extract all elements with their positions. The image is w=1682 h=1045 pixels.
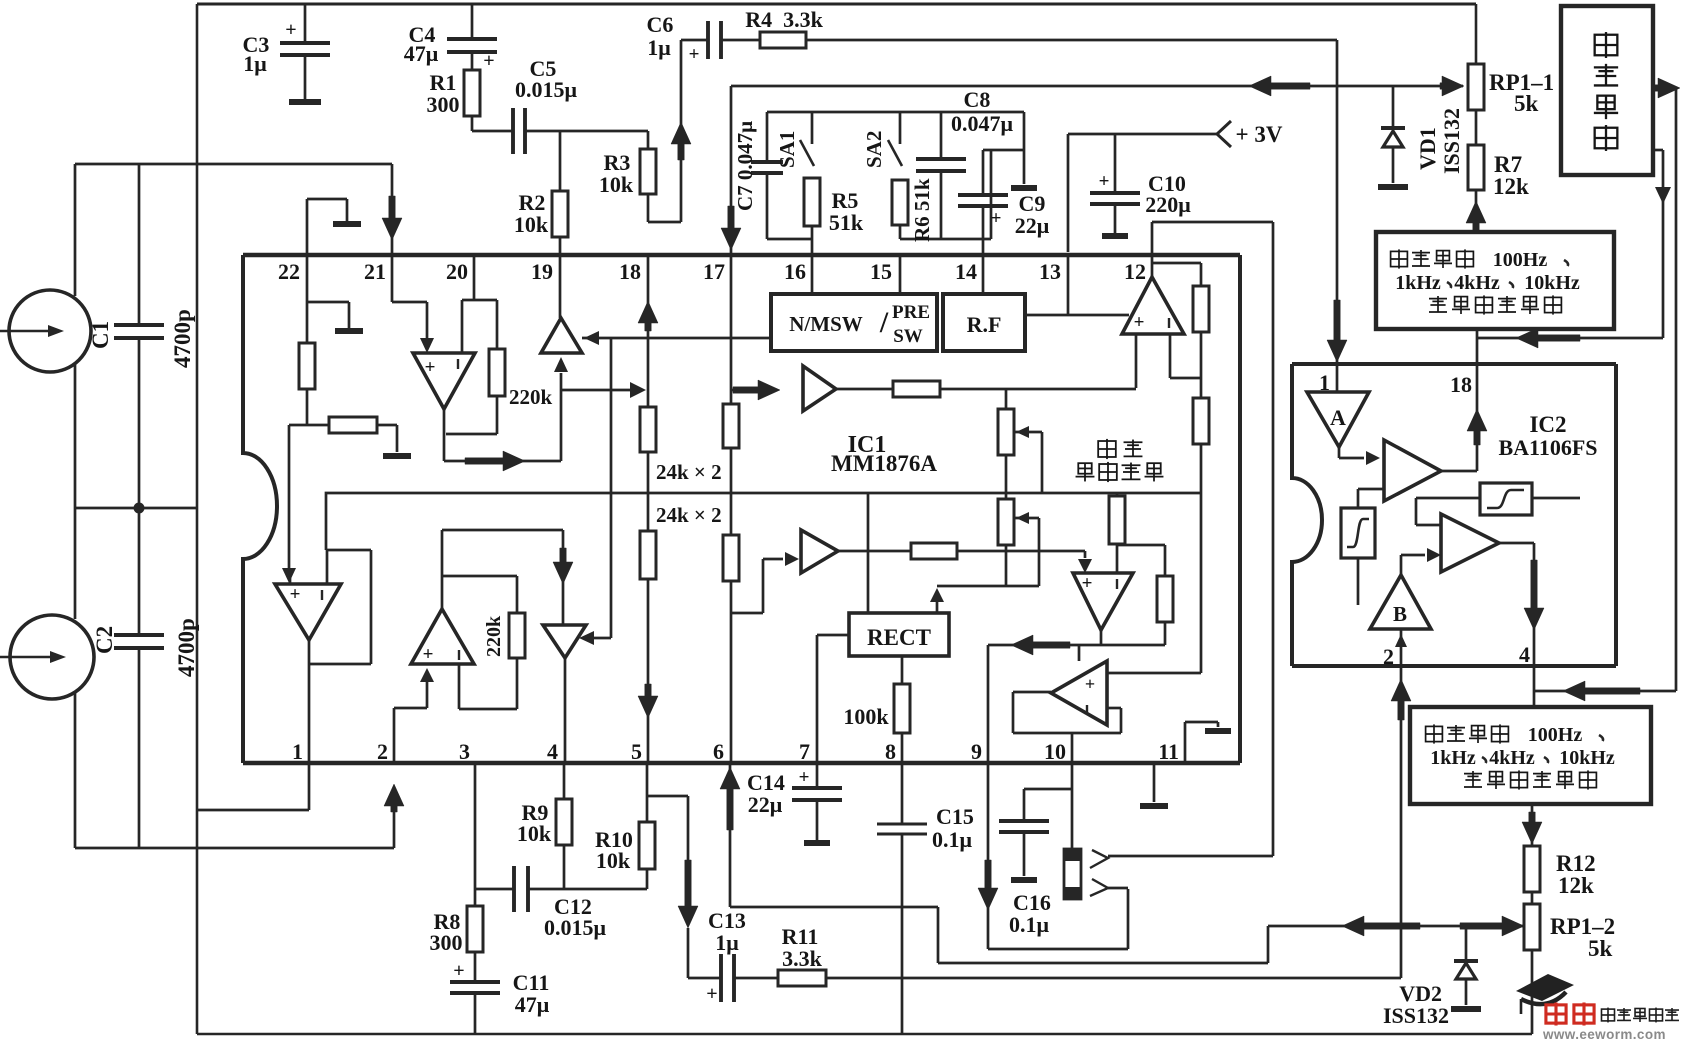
- svg-text:+: +: [425, 357, 436, 378]
- svg-text:+: +: [706, 983, 717, 1005]
- svg-text:2: 2: [377, 739, 388, 764]
- svg-text:+: +: [991, 208, 1002, 229]
- svg-text:22μ: 22μ: [1015, 213, 1050, 238]
- svg-text:+: +: [453, 960, 464, 982]
- svg-text:0.047μ: 0.047μ: [951, 111, 1014, 136]
- svg-text:24k × 2: 24k × 2: [656, 460, 722, 484]
- svg-text:51k: 51k: [829, 210, 864, 235]
- svg-text:4: 4: [547, 739, 558, 764]
- svg-text:17: 17: [703, 259, 725, 284]
- svg-text:/: /: [879, 306, 889, 339]
- svg-text:+: +: [689, 44, 700, 65]
- svg-text:A: A: [1330, 405, 1346, 430]
- svg-text:47μ: 47μ: [404, 41, 439, 66]
- svg-text:4: 4: [1519, 642, 1530, 667]
- svg-text:18: 18: [1450, 372, 1472, 397]
- svg-text:14: 14: [955, 259, 977, 284]
- svg-text:21: 21: [364, 259, 386, 284]
- svg-text:1μ: 1μ: [647, 35, 671, 60]
- svg-text:C2: C2: [92, 626, 117, 654]
- svg-text:11: 11: [1158, 739, 1179, 764]
- svg-text:1μ: 1μ: [243, 51, 267, 76]
- svg-text:0.1μ: 0.1μ: [1009, 912, 1050, 937]
- svg-text:16: 16: [784, 259, 806, 284]
- svg-text:10k: 10k: [514, 212, 549, 237]
- svg-text:5k: 5k: [1588, 936, 1613, 961]
- svg-text:10kHz: 10kHz: [1524, 272, 1580, 294]
- svg-text:R4 3.3k: R4 3.3k: [745, 7, 823, 32]
- svg-text:300: 300: [427, 92, 460, 117]
- svg-text:220μ: 220μ: [1145, 192, 1191, 217]
- svg-text:1kHz: 1kHz: [1430, 747, 1476, 769]
- svg-text:C1: C1: [88, 321, 113, 349]
- svg-text:IC2: IC2: [1529, 412, 1566, 437]
- svg-text:12: 12: [1124, 259, 1146, 284]
- svg-text:+: +: [1099, 171, 1110, 192]
- svg-text:10k: 10k: [599, 172, 634, 197]
- svg-text:C6: C6: [647, 12, 674, 37]
- svg-text:+ 3V: + 3V: [1236, 122, 1283, 147]
- svg-text:12k: 12k: [1558, 873, 1594, 898]
- svg-text:+: +: [799, 767, 810, 788]
- svg-text:+: +: [1082, 573, 1093, 594]
- svg-text:SA2: SA2: [862, 131, 886, 168]
- svg-text:SW: SW: [893, 326, 923, 347]
- svg-text:100k: 100k: [843, 704, 889, 729]
- svg-text:0.1μ: 0.1μ: [932, 827, 973, 852]
- svg-text:20: 20: [446, 259, 468, 284]
- svg-text:100Hz: 100Hz: [1528, 724, 1583, 746]
- svg-text:10k: 10k: [517, 821, 552, 846]
- svg-text:+: +: [285, 19, 296, 41]
- svg-text:N/MSW: N/MSW: [789, 312, 863, 336]
- svg-text:9: 9: [971, 739, 982, 764]
- svg-text:www.eeworm.com: www.eeworm.com: [1542, 1027, 1666, 1040]
- svg-text:MM1876A: MM1876A: [831, 451, 937, 476]
- svg-text:+: +: [1134, 312, 1145, 333]
- svg-text:7: 7: [799, 739, 810, 764]
- svg-text:220k: 220k: [509, 385, 553, 409]
- svg-text:SA1: SA1: [775, 131, 799, 168]
- svg-text:12k: 12k: [1493, 174, 1529, 199]
- svg-text:6: 6: [713, 739, 724, 764]
- svg-text:0.015μ: 0.015μ: [544, 915, 607, 940]
- svg-text:8: 8: [885, 739, 896, 764]
- svg-text:C15: C15: [936, 804, 974, 829]
- svg-text:15: 15: [870, 259, 892, 284]
- svg-text:10k: 10k: [596, 848, 631, 873]
- svg-text:C7 0.047μ: C7 0.047μ: [733, 121, 757, 211]
- svg-text:22: 22: [278, 259, 300, 284]
- svg-text:R.F: R.F: [967, 312, 1002, 337]
- svg-text:0.015μ: 0.015μ: [515, 77, 578, 102]
- svg-text:1kHz: 1kHz: [1395, 272, 1441, 294]
- svg-text:3: 3: [459, 739, 470, 764]
- svg-text:300: 300: [430, 930, 463, 955]
- svg-text:4700p: 4700p: [174, 618, 199, 677]
- svg-text:13: 13: [1039, 259, 1061, 284]
- svg-text:4700p: 4700p: [170, 309, 195, 368]
- svg-text:4kHz: 4kHz: [1454, 272, 1500, 294]
- svg-text:ISS132: ISS132: [1383, 1003, 1449, 1028]
- svg-text:2: 2: [1383, 644, 1394, 669]
- svg-text:PRE: PRE: [892, 302, 930, 323]
- svg-text:10kHz: 10kHz: [1559, 747, 1615, 769]
- svg-text:19: 19: [531, 259, 553, 284]
- svg-text:VD1: VD1: [1415, 127, 1440, 170]
- svg-text:24k × 2: 24k × 2: [656, 503, 722, 527]
- svg-text:22μ: 22μ: [748, 792, 783, 817]
- svg-text:4kHz: 4kHz: [1489, 747, 1535, 769]
- svg-text:+: +: [483, 50, 494, 72]
- svg-text:220k: 220k: [483, 615, 505, 657]
- svg-text:3.3k: 3.3k: [782, 946, 823, 971]
- svg-text:R6 51k: R6 51k: [910, 178, 934, 242]
- svg-text:1μ: 1μ: [715, 930, 739, 955]
- svg-text:+: +: [290, 584, 301, 605]
- svg-text:10: 10: [1044, 739, 1066, 764]
- svg-text:47μ: 47μ: [515, 992, 550, 1017]
- svg-text:18: 18: [619, 259, 641, 284]
- svg-text:+: +: [1085, 674, 1095, 694]
- svg-text:5: 5: [631, 739, 642, 764]
- svg-text:BA1106FS: BA1106FS: [1498, 435, 1597, 460]
- svg-text:5k: 5k: [1514, 91, 1539, 116]
- svg-text:ISS132: ISS132: [1439, 108, 1464, 174]
- svg-text:1: 1: [292, 739, 303, 764]
- svg-text:RECT: RECT: [867, 625, 931, 650]
- svg-text:+: +: [423, 644, 434, 665]
- svg-text:B: B: [1393, 602, 1407, 626]
- svg-text:100Hz: 100Hz: [1493, 249, 1548, 271]
- svg-text:C8: C8: [964, 87, 991, 112]
